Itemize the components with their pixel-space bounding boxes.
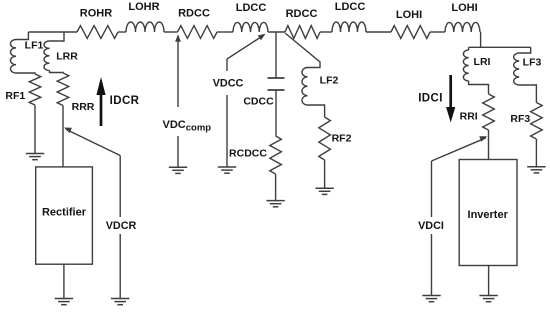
svg-text:CDCC: CDCC [243,96,274,108]
svg-text:LOHI: LOHI [451,2,477,14]
svg-text:RF2: RF2 [332,132,352,144]
svg-text:RCDCC: RCDCC [229,148,267,160]
svg-text:LF2: LF2 [320,74,339,86]
svg-text:ROHR: ROHR [80,8,112,20]
svg-text:VDCC: VDCC [213,77,244,89]
svg-text:RRI: RRI [460,111,478,123]
svg-text:Rectifier: Rectifier [42,206,87,218]
svg-text:LRI: LRI [474,56,491,68]
svg-text:LF1: LF1 [25,40,44,52]
svg-text:LOHR: LOHR [128,1,159,13]
svg-text:LDCC: LDCC [236,2,267,14]
svg-text:IDCR: IDCR [110,95,140,107]
svg-text:VDCcomp: VDCcomp [163,119,212,134]
svg-text:RRR: RRR [72,101,95,113]
svg-text:Inverter: Inverter [468,209,509,221]
svg-text:RF3: RF3 [510,113,530,125]
svg-text:IDCI: IDCI [418,92,443,104]
svg-text:RDCC: RDCC [286,8,318,20]
svg-text:LOHI: LOHI [396,9,422,21]
svg-text:LF3: LF3 [523,56,542,68]
svg-text:RF1: RF1 [5,90,25,102]
svg-text:VDCR: VDCR [106,220,137,232]
svg-text:VDCI: VDCI [418,220,444,232]
svg-text:LRR: LRR [56,50,78,62]
svg-text:RDCC: RDCC [178,8,210,20]
svg-text:LDCC: LDCC [335,1,366,13]
